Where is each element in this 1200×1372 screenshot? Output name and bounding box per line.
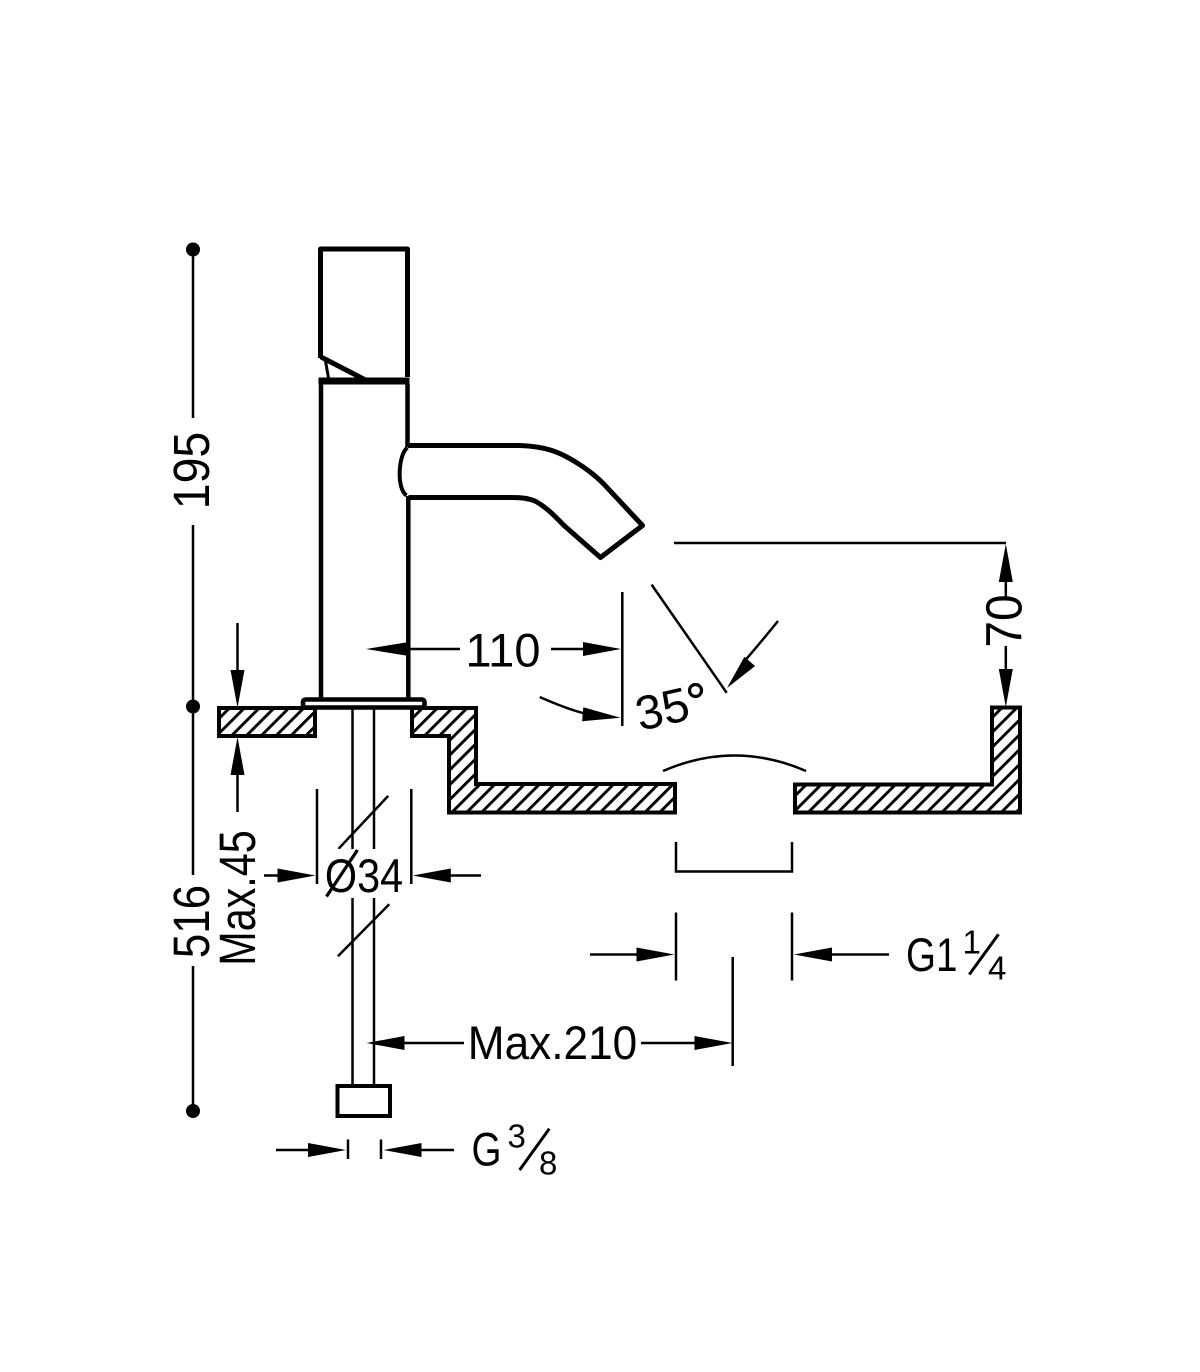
svg-text:O34: O34 (325, 851, 403, 903)
svg-text:8: 8 (539, 1145, 557, 1182)
svg-text:G: G (472, 1124, 502, 1176)
svg-text:3: 3 (508, 1118, 526, 1155)
svg-text:Max.45: Max.45 (209, 830, 266, 965)
svg-text:110: 110 (466, 624, 541, 677)
svg-text:1: 1 (963, 924, 981, 961)
svg-text:G1: G1 (906, 929, 957, 981)
svg-text:Max.210: Max.210 (468, 1017, 637, 1070)
svg-text:4: 4 (988, 950, 1006, 987)
svg-text:70: 70 (976, 594, 1033, 647)
svg-text:195: 195 (164, 432, 220, 509)
